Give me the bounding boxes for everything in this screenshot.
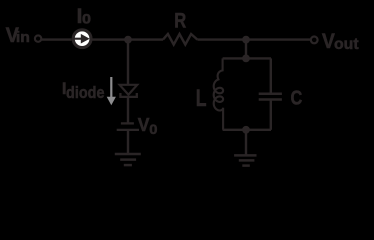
svg-text:0: 0 bbox=[149, 122, 157, 138]
wire: node B to Vout terminal bbox=[246, 38, 311, 40]
label V0 bbox=[138, 114, 158, 138]
label L bbox=[196, 85, 207, 112]
wire: battery to left ground bbox=[127, 130, 129, 154]
svg-text:0: 0 bbox=[82, 11, 91, 27]
battery V0 long plate bbox=[117, 129, 139, 131]
ground (left) bbox=[115, 154, 141, 165]
wire: diode to battery V0 bbox=[127, 97, 129, 123]
svg-text:C: C bbox=[291, 87, 303, 110]
terminal Vin bbox=[35, 35, 41, 41]
svg-text:in: in bbox=[16, 30, 30, 46]
terminal Vout bbox=[311, 37, 318, 44]
label R bbox=[174, 9, 186, 32]
node B junction bbox=[242, 36, 250, 44]
wire: Vin terminal to current source bbox=[42, 38, 72, 40]
label I0 bbox=[77, 4, 92, 28]
inductor L bbox=[214, 58, 223, 129]
current source I0 bbox=[73, 30, 91, 48]
svg-text:V: V bbox=[322, 30, 335, 53]
node A junction bbox=[124, 36, 132, 44]
label Vin bbox=[6, 23, 30, 47]
node tank bottom junction bbox=[242, 126, 250, 134]
ground (right) bbox=[234, 155, 256, 165]
wire: tank bottom to right ground bbox=[245, 130, 247, 156]
resistor R bbox=[163, 34, 197, 45]
diode D1 cathode bar with ticks bbox=[120, 93, 136, 97]
svg-text:out: out bbox=[334, 36, 359, 53]
wire: node B down to tank top node bbox=[245, 40, 247, 59]
svg-text:R: R bbox=[174, 9, 186, 32]
svg-text:L: L bbox=[196, 85, 207, 112]
battery V0 short plate bbox=[121, 122, 134, 124]
label Vout bbox=[322, 30, 359, 53]
wire: resistor to node B bbox=[197, 38, 246, 40]
capacitor C bottom lead bbox=[270, 101, 272, 130]
label Idiode bbox=[62, 79, 105, 102]
wire: node A to resistor bbox=[128, 38, 163, 40]
label C bbox=[291, 87, 303, 110]
wire: node A down to diode bbox=[127, 40, 129, 85]
svg-text:diode: diode bbox=[66, 83, 105, 102]
diode D1 (triangle) bbox=[120, 85, 138, 95]
capacitor C top lead bbox=[270, 58, 272, 92]
capacitor C plates bbox=[259, 94, 282, 100]
tank top wire bbox=[223, 57, 271, 59]
node tank top junction bbox=[242, 55, 250, 63]
wire: current source to node A bbox=[92, 38, 128, 40]
tank bottom wire bbox=[223, 129, 271, 131]
current arrow Idiode bbox=[107, 77, 116, 105]
